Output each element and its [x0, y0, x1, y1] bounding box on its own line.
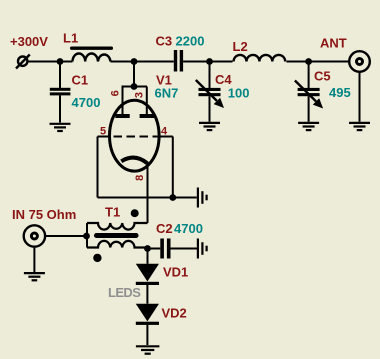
wire grid frame right [172, 137, 174, 198]
capacitor C3 [174, 50, 177, 72]
node T1 output junction [144, 245, 151, 252]
svg-text:C5: C5 [314, 69, 331, 84]
ground C4 [199, 123, 220, 130]
node anode frame junction [131, 83, 138, 90]
wire ANT down [359, 73, 361, 122]
inductor L1 [73, 53, 111, 61]
svg-text:VD2: VD2 [162, 306, 187, 321]
node C1 junction [57, 58, 64, 65]
wire rail left [27, 61, 72, 63]
svg-text:495: 495 [329, 85, 351, 100]
ground C1 [50, 124, 71, 131]
capacitor C4 (variable) [209, 62, 211, 89]
node V1 anode junction [131, 58, 138, 65]
wire rail C3 to L2 [183, 61, 232, 63]
node C4 junction [206, 58, 213, 65]
diode VD1 [136, 264, 159, 282]
svg-text:100: 100 [228, 85, 250, 100]
terminal +300V [16, 55, 30, 69]
capacitor C2 [148, 248, 161, 250]
ground C2 (rotated) [198, 239, 207, 259]
tube V1 grid (dashed) [98, 136, 173, 138]
wire C2 to ground [171, 248, 198, 250]
svg-text:8: 8 [134, 175, 146, 181]
op V1 anode connection [133, 62, 135, 87]
wire anode frame [122, 86, 148, 88]
node grid ground junction [169, 194, 176, 201]
tube V1 envelope [110, 100, 160, 171]
svg-text:+300V: +300V [10, 34, 48, 49]
wire IN to T1 [46, 235, 87, 237]
wire IN down [33, 248, 35, 272]
T1 core [94, 233, 139, 238]
ground IN [24, 273, 45, 280]
T1 phase dot top [131, 209, 139, 217]
tube V1 anode plates [115, 114, 129, 118]
svg-text:VD1: VD1 [163, 265, 188, 280]
svg-text:6N7: 6N7 [155, 85, 179, 100]
wire T1 left [86, 223, 88, 248]
inductor L2 [234, 55, 286, 62]
T1 primary winding (top) [87, 223, 148, 230]
svg-text:L2: L2 [233, 39, 248, 54]
svg-text:4700: 4700 [72, 95, 101, 110]
svg-text:ANT: ANT [320, 36, 347, 51]
node T1 input junction [83, 233, 90, 240]
T1 phase dot bottom [93, 254, 101, 262]
svg-text:L1: L1 [63, 31, 78, 46]
capacitor C1 [59, 62, 61, 89]
wire rail L1 to C3 [111, 61, 174, 63]
wire rail L2 to ANT [287, 61, 349, 63]
svg-text:C1: C1 [72, 73, 89, 88]
svg-text:6: 6 [109, 90, 121, 96]
ground ANT [349, 123, 370, 130]
ground VD2 [136, 346, 160, 353]
svg-text:C2: C2 [156, 221, 173, 236]
wire grid frame bottom [98, 197, 197, 199]
wire grid frame left [97, 137, 99, 198]
svg-text:T1: T1 [105, 205, 120, 220]
svg-text:4700: 4700 [174, 221, 203, 236]
svg-text:LEDS: LEDS [108, 285, 141, 300]
tube V1 cathode [121, 158, 147, 164]
T1 secondary winding (bottom) [87, 241, 148, 248]
wire VD1 to VD2 [146, 285, 148, 304]
svg-text:2200: 2200 [176, 34, 205, 49]
terminal IN [24, 225, 45, 246]
ground C5 [298, 123, 319, 130]
ground grid (rotated) [198, 188, 207, 208]
wire VD2 down [146, 325, 148, 345]
capacitor C5 (variable) [308, 62, 310, 89]
wire T1 to VD1 [147, 249, 149, 264]
node C5 junction [305, 58, 312, 65]
svg-text:C3: C3 [156, 34, 173, 49]
wire cathode down [147, 162, 149, 223]
svg-text:IN 75 Ohm: IN 75 Ohm [12, 207, 76, 222]
diode VD2 [136, 304, 159, 322]
svg-text:3: 3 [134, 92, 146, 98]
terminal ANT [349, 51, 370, 72]
